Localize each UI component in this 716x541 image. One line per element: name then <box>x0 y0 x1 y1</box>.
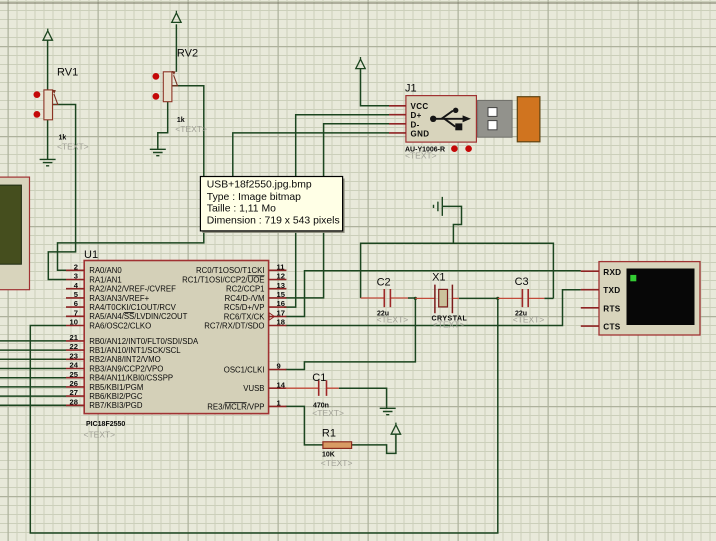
U1 pin 24 stub <box>66 368 84 370</box>
U1 pin 26 stub <box>66 386 84 388</box>
wire J1 GND going left and down behind tooltip <box>233 133 389 176</box>
svg-text:CTS: CTS <box>603 323 620 332</box>
terminal pin RXD stub <box>581 270 599 272</box>
svg-text:RA5/AN4/SS/LVDIN/C2OUT: RA5/AN4/SS/LVDIN/C2OUT <box>89 312 187 321</box>
svg-text:RA3/AN3/VREF+: RA3/AN3/VREF+ <box>89 294 149 303</box>
capacitor C3 <box>498 289 545 307</box>
svg-text:6: 6 <box>74 299 78 308</box>
svg-text:2: 2 <box>74 262 78 271</box>
svg-text:<TEXT>: <TEXT> <box>513 314 545 324</box>
svg-text:23: 23 <box>70 351 78 360</box>
RV2 terminal dot bottom <box>153 93 160 100</box>
wire LCD data line to U1 pin 23 <box>0 358 66 360</box>
svg-text:RC6/TX/CK: RC6/TX/CK <box>224 312 266 321</box>
svg-text:RC0/T1OSO/T1CKI: RC0/T1OSO/T1CKI <box>196 266 264 275</box>
virtual terminal instrument <box>599 262 700 335</box>
svg-text:U1: U1 <box>84 249 98 261</box>
terminal pin TXD stub <box>581 289 599 291</box>
svg-text:27: 27 <box>70 388 78 397</box>
terminal pin CTS stub <box>581 325 599 327</box>
svg-text:Taille : 1,11 Mo: Taille : 1,11 Mo <box>207 204 276 215</box>
svg-text:Dimension : 719 x 543 pixels: Dimension : 719 x 543 pixels <box>207 215 340 226</box>
wire X1 right lead to node B <box>459 297 498 299</box>
wire RV1 top lead from power arrow to RV1 body <box>47 40 49 90</box>
USB plug body (orange) <box>517 97 540 142</box>
ground below C1 <box>380 408 396 414</box>
terminal pin RTS stub <box>581 307 599 309</box>
U1 pin 25 stub <box>66 377 84 379</box>
svg-text:RA2/AN2/VREF-/CVREF: RA2/AN2/VREF-/CVREF <box>89 285 176 294</box>
power symbol near R1 <box>391 423 400 435</box>
svg-text:<TEXT>: <TEXT> <box>175 124 207 134</box>
svg-text:RC5/D+/VP: RC5/D+/VP <box>224 303 265 312</box>
U1 pin 27 stub <box>66 395 84 397</box>
wire ground symbol jog to GND rail <box>442 206 461 243</box>
svg-text:12: 12 <box>277 272 285 281</box>
RV2 terminal dot top <box>153 73 160 80</box>
RV1 terminal dot bottom <box>34 111 41 118</box>
wire U1 pin 18 RC7/RX to terminal TXD <box>286 290 581 326</box>
wire LCD data line to U1 pin 24 <box>0 368 66 370</box>
svg-text:RB5/KBI1/PGM: RB5/KBI1/PGM <box>89 383 143 392</box>
crystal X1 <box>415 285 459 314</box>
J1 pin VCC stub <box>389 105 406 107</box>
svg-text:J1: J1 <box>405 83 417 95</box>
svg-text:<TEXT>: <TEXT> <box>321 458 353 468</box>
wire RV2 bottom lead to ground <box>158 102 168 149</box>
svg-text:18: 18 <box>277 318 285 327</box>
USB trident icon inside J1 <box>430 108 471 131</box>
J1 unconnected pin dot 2 <box>465 145 472 152</box>
svg-text:RA4/T0CKI/C1OUT/RCV: RA4/T0CKI/C1OUT/RCV <box>89 303 176 312</box>
U1 pin 22 stub <box>66 349 84 351</box>
U1 pin 16 stub <box>269 306 287 308</box>
svg-text:<TEXT>: <TEXT> <box>57 142 89 152</box>
svg-text:17: 17 <box>277 309 285 318</box>
svg-text:RC7/RX/DT/SDO: RC7/RX/DT/SDO <box>204 321 264 330</box>
U1 pin 11 stub <box>269 269 287 271</box>
wire RV2 top lead from power arrow to RV2 body <box>175 24 177 72</box>
wire LCD data line to U1 pin 22 <box>0 349 66 351</box>
svg-text:28: 28 <box>70 397 78 406</box>
U1 pin 28 stub <box>66 404 84 406</box>
svg-text:C2: C2 <box>377 277 391 289</box>
wire J1 D+ to U1 pin 16 (RC5/D+) <box>284 115 389 307</box>
tooltip info box <box>200 177 344 233</box>
svg-text:RXD: RXD <box>603 268 621 277</box>
U1 pin 4 stub <box>66 288 84 290</box>
svg-text:RA1/AN1: RA1/AN1 <box>89 275 122 284</box>
svg-text:<TEXT>: <TEXT> <box>312 408 344 418</box>
svg-text:RA6/OSC2/CLKO: RA6/OSC2/CLKO <box>89 321 151 330</box>
svg-text:GND: GND <box>411 130 430 139</box>
ground below RV1 <box>40 159 56 165</box>
J1 pin D- stub <box>389 123 406 125</box>
svg-text:21: 21 <box>70 333 79 342</box>
wire RV1 wiper to U1 pin 3 (RA1/AN1) <box>48 105 75 280</box>
svg-text:TXD: TXD <box>603 286 620 295</box>
connector J1 USB body <box>406 96 477 143</box>
svg-text:<TEXT>: <TEXT> <box>433 320 465 330</box>
svg-text:9: 9 <box>277 362 281 371</box>
svg-text:RV1: RV1 <box>57 67 78 79</box>
wire J1 D- to U1 pin 15 (RC4/D-) <box>286 124 389 298</box>
J1 pin D+ stub <box>389 114 406 116</box>
svg-text:RB4/AN11/KBI0/CSSPP: RB4/AN11/KBI0/CSSPP <box>89 374 173 383</box>
wire C1 right lead to ground <box>339 388 387 408</box>
svg-text:RB0/AN12/INT0/FLT0/SDI/SDA: RB0/AN12/INT0/FLT0/SDI/SDA <box>89 337 199 346</box>
U1 pin 6 stub <box>66 306 84 308</box>
U1 pin 21 stub <box>66 340 84 342</box>
svg-text:<TEXT>: <TEXT> <box>377 314 409 324</box>
svg-text:RA0/AN0: RA0/AN0 <box>89 266 122 275</box>
svg-text:7: 7 <box>74 308 78 317</box>
svg-text:USB+18f2550.jpg.bmp: USB+18f2550.jpg.bmp <box>207 180 312 191</box>
wire LCD data line to U1 pin 21 <box>0 340 66 342</box>
svg-text:14: 14 <box>277 380 286 389</box>
wire C2 right lead to crystal node A <box>408 297 415 299</box>
svg-text:RE3/MCLR/VPP: RE3/MCLR/VPP <box>207 402 264 411</box>
wire R1 right lead to power arrow <box>351 434 396 453</box>
power symbol above RV2 <box>172 11 181 23</box>
U1 pin 5 stub <box>66 297 84 299</box>
power symbol above RV1 <box>43 29 52 41</box>
svg-text:RTS: RTS <box>603 304 620 313</box>
svg-text:OSC1/CLKI: OSC1/CLKI <box>224 365 265 374</box>
U1 pin 12 stub <box>269 279 287 281</box>
svg-text:RV2: RV2 <box>177 48 198 60</box>
capacitor C2 <box>361 289 408 307</box>
U1 pin 18 stub <box>269 325 287 327</box>
U1 pin 10 stub <box>66 325 84 327</box>
svg-text:RB1/AN10/INT1/SCK/SCL: RB1/AN10/INT1/SCK/SCL <box>89 346 181 355</box>
svg-text:11: 11 <box>277 262 286 271</box>
wire X1 right / C3 left node B down around bottom to U1 pin 10 OSC2 <box>30 298 498 533</box>
LCD display LCD1 (partial at left edge) <box>0 177 30 290</box>
svg-text:RB2/AN8/INT2/VMO: RB2/AN8/INT2/VMO <box>89 355 161 364</box>
svg-text:25: 25 <box>70 370 79 379</box>
U1 pin 14 stub <box>269 387 287 389</box>
wire VCC power arrow to J1 VCC pin <box>361 69 390 106</box>
svg-text:13: 13 <box>277 281 285 290</box>
USB plug contact square top <box>488 108 497 117</box>
svg-text:24: 24 <box>70 361 79 370</box>
svg-text:26: 26 <box>70 379 78 388</box>
svg-text:16: 16 <box>277 299 285 308</box>
potentiometer RV1 <box>44 90 58 120</box>
U1 pin 1 stub <box>269 405 287 407</box>
wire LCD data line to U1 pin 26 <box>0 386 66 388</box>
ground below RV2 <box>150 149 166 155</box>
U1 pin 9 stub <box>269 369 287 371</box>
wire LCD data line to U1 pin 27 <box>0 395 66 397</box>
svg-text:D+: D+ <box>411 111 422 120</box>
svg-text:C3: C3 <box>515 276 529 288</box>
svg-text:1k: 1k <box>177 117 185 124</box>
wire U1 pin 17 RC6/TX to terminal RXD <box>286 271 581 317</box>
USB plug metal shell <box>478 100 512 137</box>
svg-text:C1: C1 <box>312 372 326 384</box>
J1 unconnected pin dot 1 <box>451 145 458 152</box>
svg-text:22: 22 <box>70 342 78 351</box>
wire RV2 wiper to U1 pin 2 (RA0/AN0) <box>58 86 204 270</box>
U1 pin 7 stub <box>66 315 84 317</box>
power symbol VCC near J1 <box>356 57 365 69</box>
svg-text:PIC18F2550: PIC18F2550 <box>86 421 125 428</box>
svg-text:15: 15 <box>277 290 286 299</box>
svg-text:D-: D- <box>411 120 420 129</box>
wire LCD data line to U1 pin 25 <box>0 377 66 379</box>
capacitor C1 <box>286 380 339 396</box>
wire RV1 bottom lead to ground <box>47 120 49 160</box>
svg-text:Type : Image bitmap: Type : Image bitmap <box>207 192 301 203</box>
svg-text:RC4/D-/VM: RC4/D-/VM <box>225 294 265 303</box>
wire U1 pin 9 OSC1 to crystal node A <box>286 298 416 369</box>
junction node A (OSC1/C2/X1) <box>414 297 417 300</box>
junction node B (OSC2/C3/X1) <box>496 297 499 300</box>
J1 pin GND stub <box>389 132 406 134</box>
U1 pin 2 stub <box>66 269 84 271</box>
wire ground-loop top rail (GND net) <box>361 243 554 298</box>
U1 pin 3 stub <box>66 279 84 281</box>
svg-text:<TEXT>: <TEXT> <box>405 150 437 160</box>
svg-text:10: 10 <box>70 318 78 327</box>
svg-text:1k: 1k <box>59 135 67 142</box>
op-amp U1 body (PIC18F2550 microcontroller) <box>84 261 268 414</box>
svg-text:VUSB: VUSB <box>243 384 264 393</box>
U1 pin 17 direction marker <box>269 313 274 320</box>
resistor R1 <box>323 442 352 449</box>
U1 pin 13 stub <box>269 288 287 290</box>
RV1 terminal dot top <box>34 91 41 98</box>
U1 pin 17 stub <box>269 316 287 318</box>
svg-text:RC1/T1OSI/CCP2/UOE: RC1/T1OSI/CCP2/UOE <box>182 275 264 284</box>
svg-text:<TEXT>: <TEXT> <box>84 430 116 440</box>
USB plug contact square bottom <box>488 121 497 130</box>
potentiometer RV2 <box>163 71 177 102</box>
svg-text:RB7/KBI3/PGD: RB7/KBI3/PGD <box>89 401 143 410</box>
svg-text:RB6/KBI2/PGC: RB6/KBI2/PGC <box>89 392 143 401</box>
svg-text:RB3/AN9/CCP2/VPO: RB3/AN9/CCP2/VPO <box>89 364 163 373</box>
U1 pin 15 stub <box>269 297 287 299</box>
svg-text:R1: R1 <box>322 428 336 440</box>
svg-text:VCC: VCC <box>411 102 429 111</box>
wire C3 right lead to GND rail riser <box>544 297 553 299</box>
svg-text:X1: X1 <box>432 272 445 284</box>
U1 pin 23 stub <box>66 358 84 360</box>
wire U1 pin 1 MCLR to R1 left lead <box>286 406 324 445</box>
wire LCD data line to U1 pin 28 <box>0 404 66 406</box>
svg-text:RC2/CCP1: RC2/CCP1 <box>226 285 265 294</box>
svg-text:3: 3 <box>74 272 78 281</box>
ground (left facing) on USB GND net <box>434 197 443 216</box>
